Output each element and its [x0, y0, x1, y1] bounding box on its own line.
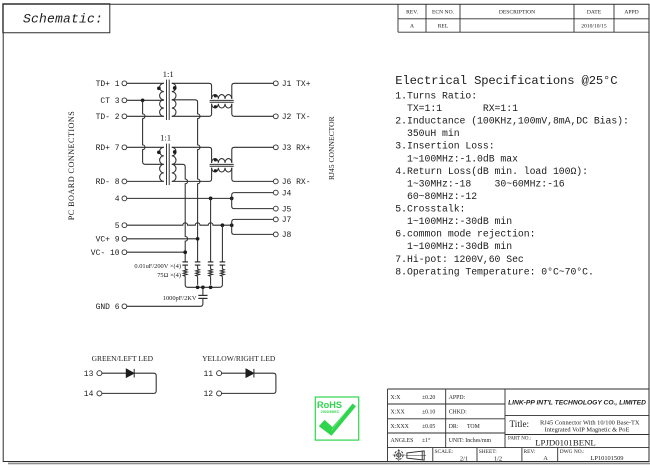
- electrical specifications text: [395, 74, 629, 277]
- svg-text:CT 3: CT 3: [100, 97, 119, 106]
- left caption PC BOARD CONNECTIONS: [67, 111, 76, 221]
- wire T1 secondary center tap down to C2 (net VC+, hops J2, RX+ and RX- lines): [172, 100, 200, 262]
- svg-text:LINK-PP INT'L TECHNOLOGY CO.,: LINK-PP INT'L TECHNOLOGY CO., LIMITED: [508, 400, 646, 407]
- svg-text:RJ45 CONNECTOR: RJ45 CONNECTOR: [327, 116, 336, 180]
- svg-text:1.Turns Ratio:: 1.Turns Ratio:: [395, 91, 477, 102]
- part number cell: [508, 437, 596, 448]
- svg-text:±1°: ±1°: [422, 437, 431, 444]
- svg-text:1~100MHz:-30dB min: 1~100MHz:-30dB min: [395, 241, 512, 252]
- svg-text:REV:: REV:: [524, 449, 536, 455]
- pin 13: [84, 370, 102, 379]
- svg-text:13: 13: [84, 370, 94, 379]
- svg-text:LP10101509: LP10101509: [590, 455, 623, 462]
- pin VC+ 9 (left terminal): [96, 236, 127, 245]
- svg-text:±0.20: ±0.20: [422, 395, 435, 401]
- pin CT 3 (left terminal): [100, 97, 126, 106]
- transformer T1 primary winding: [160, 83, 164, 116]
- wire VC- 10 to T2 center-tap vertical: [127, 251, 185, 253]
- pin J8 (RJ45 terminal): [273, 231, 291, 240]
- pin J3 RX+ (RJ45 terminal): [273, 144, 310, 153]
- resistor R2 75 ohm: [196, 269, 200, 285]
- svg-text:ANGLES: ANGLES: [391, 438, 414, 444]
- pin GND 6 (left terminal): [96, 303, 127, 312]
- title cell: [510, 419, 640, 434]
- svg-text:±0.05: ±0.05: [422, 424, 435, 430]
- wire CM1 to J2: [232, 104, 274, 117]
- resistor R4 75 ohm: [220, 269, 224, 285]
- pin 14: [84, 390, 102, 399]
- common-mode choke CM2 bottom winding: [212, 168, 232, 172]
- wire GND 6 to C5: [127, 298, 203, 306]
- node bus-C2 junction: [196, 285, 200, 289]
- svg-text:7.Hi-pot: 1200V,60 Sec: 7.Hi-pot: 1200V,60 Sec: [395, 254, 524, 265]
- bracket wire J7-J8: [232, 219, 274, 234]
- projection symbol: [393, 449, 426, 461]
- wire CM2 to J3: [232, 147, 274, 163]
- svg-text:J7: J7: [282, 216, 292, 225]
- schematic title box: [3, 4, 110, 33]
- transformer T2 secondary winding: [172, 147, 176, 181]
- wire TD- 2 lead to T1 primary bottom: [127, 115, 164, 117]
- wire pin 11 to yellow LED anode: [222, 372, 246, 374]
- transformer T1 secondary polarity dot: [173, 86, 177, 90]
- ground bus wire: [185, 285, 222, 288]
- svg-text:350uH min: 350uH min: [395, 128, 459, 139]
- pin 5 (left terminal): [115, 222, 127, 231]
- wire CM1 to J1: [232, 83, 274, 99]
- svg-text:12: 12: [203, 390, 213, 399]
- tolerance cells: [391, 395, 436, 444]
- svg-text:CHKD:: CHKD:: [449, 410, 467, 416]
- caption YELLOW/RIGHT LED: [202, 354, 276, 363]
- svg-text:RoHS: RoHS: [317, 400, 342, 410]
- wire CT center-tap down to T2 primary center tap (hops TD- and RD+): [143, 100, 164, 164]
- svg-text:75Ω ×(4): 75Ω ×(4): [157, 272, 181, 279]
- svg-text:2010/10/15: 2010/10/15: [581, 24, 607, 30]
- svg-text:YELLOW/RIGHT LED: YELLOW/RIGHT LED: [202, 354, 276, 363]
- node CT junction: [141, 98, 145, 102]
- wire green LED cathode to pin 14: [102, 373, 156, 393]
- capacitor C5 1000pF/2KV: [198, 287, 207, 298]
- wire RD+ 7 lead to T2 primary top: [127, 146, 164, 148]
- svg-text:TD+ 1: TD+ 1: [96, 80, 120, 89]
- svg-text:J4: J4: [282, 189, 292, 198]
- node VC- junction: [183, 250, 187, 254]
- pin RD- 8 (left terminal): [96, 178, 127, 187]
- svg-text:REV.: REV.: [406, 10, 418, 16]
- wire VC+ 9 to secondary center-tap vertical: [127, 238, 198, 240]
- wire down to C4: [221, 225, 223, 261]
- pin J4 (RJ45 terminal): [273, 189, 291, 198]
- svg-text:Title:: Title:: [510, 419, 530, 429]
- node bus-C3 junction: [209, 285, 213, 289]
- svg-text:SCALE:: SCALE:: [435, 449, 454, 455]
- wire T2 secondary bottom to CM2: [172, 168, 212, 182]
- capacitor C2 0.01uF/200V: [195, 262, 201, 269]
- node bus center junction: [201, 285, 205, 289]
- capacitor C1 0.01uF/200V: [182, 262, 188, 269]
- svg-text:RD- 8: RD- 8: [96, 178, 120, 187]
- pin J5 (RJ45 terminal): [273, 205, 291, 214]
- svg-text:DESCRIPTION: DESCRIPTION: [499, 10, 535, 16]
- svg-text:4.Return Loss(dB min. load 100: 4.Return Loss(dB min. load 100Ω):: [395, 166, 588, 177]
- svg-text:1:1: 1:1: [163, 69, 174, 79]
- right caption RJ45 CONNECTOR: [327, 116, 336, 180]
- svg-text:DWG NO.:: DWG NO.:: [560, 449, 585, 455]
- svg-text:J8: J8: [282, 231, 292, 240]
- wire pin 13 to green LED anode: [102, 372, 126, 374]
- common-mode choke CM2 core: [210, 164, 234, 166]
- svg-text:SHEET:: SHEET:: [479, 449, 498, 455]
- svg-text:14: 14: [84, 390, 94, 399]
- svg-text:GREEN/LEFT LED: GREEN/LEFT LED: [92, 354, 154, 363]
- svg-text:1:1: 1:1: [160, 133, 171, 143]
- title block: [388, 389, 650, 462]
- transformer T1 ratio label 1:1: [163, 69, 174, 79]
- wire TD+ 1 lead to T1 primary top: [127, 82, 164, 84]
- svg-text:11: 11: [203, 370, 213, 379]
- svg-text:5: 5: [115, 222, 120, 231]
- svg-text:J1 TX+: J1 TX+: [282, 80, 311, 89]
- wire yellow LED cathode to pin 12: [222, 373, 276, 393]
- bracket wire J4-J5: [232, 193, 274, 209]
- caption GREEN/LEFT LED: [92, 354, 154, 363]
- svg-text:A: A: [543, 455, 548, 462]
- wire RD- 8 lead to T2 primary bottom: [127, 180, 164, 182]
- svg-text:TX=1:1 RX=1:1: TX=1:1 RX=1:1: [395, 103, 518, 114]
- transformer T1 secondary winding: [172, 83, 176, 116]
- CM2 polarity dot top: [214, 158, 217, 161]
- wire pin 5 to J7/J8 bracket (hops three verticals): [127, 223, 232, 225]
- transformer T2 secondary polarity dot: [173, 150, 177, 154]
- wire CT 3 lead to T1 primary center tap: [127, 99, 164, 101]
- resistor R3 75 ohm: [209, 269, 213, 285]
- value label 1000pF/2KV: [163, 295, 197, 302]
- svg-text:Schematic:: Schematic:: [23, 12, 103, 27]
- pin J1 TX+ (RJ45 terminal): [273, 80, 310, 89]
- CM1 polarity dot top: [214, 94, 217, 97]
- svg-text:0.01uF/200V ×(4): 0.01uF/200V ×(4): [134, 263, 181, 270]
- revision table: [398, 4, 649, 32]
- pin VC- 10 (left terminal): [91, 249, 127, 258]
- svg-text:PC BOARD CONNECTIONS: PC BOARD CONNECTIONS: [67, 111, 76, 221]
- svg-text:PART NO.:: PART NO.:: [508, 437, 531, 442]
- svg-text:2/1: 2/1: [460, 455, 468, 462]
- wire pin 4 to J4/J5 bracket: [127, 197, 232, 199]
- svg-text:5.Crosstalk:: 5.Crosstalk:: [395, 204, 465, 215]
- svg-text:6.common mode rejection:: 6.common mode rejection:: [395, 229, 535, 240]
- capacitor C4 0.01uF/200V: [220, 262, 226, 269]
- svg-text:8.Operating Temperature: 0°C~7: 8.Operating Temperature: 0°C~70°C.: [395, 266, 594, 277]
- svg-text:DATE: DATE: [587, 10, 602, 16]
- wire down to C3: [210, 198, 212, 261]
- pin TD+ 1 (left terminal): [96, 80, 127, 89]
- transformer T1 core: [167, 80, 170, 120]
- svg-text:J2 TX-: J2 TX-: [282, 113, 311, 122]
- wire CM2 to J6: [232, 168, 274, 182]
- company name: [508, 400, 646, 407]
- common-mode choke CM1 core: [210, 100, 234, 102]
- svg-text:1~30MHz:-18 30~60MHz:-16: 1~30MHz:-18 30~60MHz:-16: [395, 178, 564, 189]
- transformer T2 primary polarity dot: [157, 150, 161, 154]
- svg-text:J3 RX+: J3 RX+: [282, 144, 311, 153]
- svg-text:ECN NO.: ECN NO.: [432, 10, 455, 16]
- pin 4 (left terminal): [115, 195, 127, 204]
- svg-text:1~100MHz:-1.0dB max: 1~100MHz:-1.0dB max: [395, 153, 518, 164]
- node VC+ junction: [196, 237, 200, 241]
- pin J6 RX- (RJ45 terminal): [273, 178, 310, 187]
- svg-text:DR:: DR:: [449, 424, 459, 430]
- node pin5 to C4 junction: [221, 223, 225, 227]
- svg-text:J6 RX-: J6 RX-: [282, 178, 311, 187]
- scale/sheet/rev/dwg cells: [435, 449, 624, 462]
- node pin5 bracket junction: [230, 223, 234, 227]
- transformer T1 primary polarity dot: [157, 86, 161, 90]
- node pin4 to C3 junction: [209, 197, 213, 201]
- svg-text:GND 6: GND 6: [96, 303, 120, 312]
- CM2 polarity dot bottom: [214, 169, 217, 172]
- svg-text:APPD: APPD: [624, 10, 638, 16]
- svg-text:REL: REL: [438, 24, 449, 30]
- svg-text:RD+ 7: RD+ 7: [96, 144, 120, 153]
- svg-text:X:XX: X:XX: [391, 410, 406, 416]
- LED D1 green: [126, 369, 134, 378]
- value label 0.01uF/200V x(4): [134, 263, 181, 270]
- svg-text:X:X: X:X: [391, 395, 402, 401]
- svg-text:TD- 2: TD- 2: [96, 113, 120, 122]
- pin RD+ 7 (left terminal): [96, 144, 127, 153]
- svg-text:2002/95/EC: 2002/95/EC: [321, 410, 340, 414]
- LED D2 yellow: [246, 369, 254, 378]
- svg-text:Integrated VoIP Magnetic & PoE: Integrated VoIP Magnetic & PoE: [545, 427, 630, 434]
- svg-text:1~100MHz:-30dB min: 1~100MHz:-30dB min: [395, 216, 512, 227]
- transformer T2 ratio label 1:1: [160, 133, 171, 143]
- svg-text:A: A: [410, 24, 414, 30]
- svg-text:UNIT: Inches/mm: UNIT: Inches/mm: [449, 438, 492, 444]
- svg-text:J5: J5: [282, 205, 292, 214]
- pin TD- 2 (left terminal): [96, 113, 127, 122]
- value label 75 ohm x(4): [157, 272, 181, 279]
- wire T1 secondary bottom to CM1: [172, 104, 212, 117]
- pin J7 (RJ45 terminal): [273, 216, 291, 225]
- svg-text:4: 4: [115, 195, 120, 204]
- svg-text:TOM: TOM: [467, 424, 480, 430]
- pin J2 TX- (RJ45 terminal): [273, 113, 310, 122]
- CM1 polarity dot bottom: [214, 105, 217, 108]
- svg-text:1000pF/2KV: 1000pF/2KV: [163, 295, 197, 302]
- svg-text:APPD:: APPD:: [449, 395, 466, 401]
- RoHS logo: [315, 397, 358, 440]
- common-mode choke CM1 bottom winding: [212, 104, 232, 108]
- svg-text:Electrical Specifications @25°: Electrical Specifications @25°C: [395, 74, 617, 88]
- svg-text:±0.10: ±0.10: [422, 410, 435, 416]
- svg-text:1/2: 1/2: [494, 455, 502, 462]
- svg-text:60~80MHz:-12: 60~80MHz:-12: [395, 191, 477, 202]
- common-mode choke CM2 top winding: [212, 159, 232, 163]
- transformer T2 primary winding: [160, 147, 164, 181]
- node pin4 bracket junction: [230, 197, 234, 201]
- common-mode choke CM1 top winding: [212, 95, 232, 99]
- wire T2 secondary top to CM2: [172, 147, 212, 163]
- svg-text:VC+ 9: VC+ 9: [96, 236, 120, 245]
- pin 12: [203, 390, 221, 399]
- wire T1 secondary top to CM1: [172, 83, 212, 99]
- transformer T2 core: [167, 144, 170, 186]
- resistor R1 75 ohm: [183, 269, 187, 285]
- approval cells: [449, 395, 492, 444]
- capacitor C3 0.01uF/200V: [208, 262, 214, 269]
- svg-text:VC- 10: VC- 10: [91, 249, 120, 258]
- svg-text:LPJD0101BENL: LPJD0101BENL: [535, 437, 596, 447]
- pin 11: [203, 370, 221, 379]
- wire T2 secondary center tap down to C1 (net VC-, hops J6 line and VC+ line): [172, 164, 188, 261]
- svg-text:2.Inductance (100KHz,100mV,8mA: 2.Inductance (100KHz,100mV,8mA,DC Bias):: [395, 116, 629, 127]
- svg-text:3.Insertion Loss:: 3.Insertion Loss:: [395, 141, 494, 152]
- svg-text:X:XXX: X:XXX: [391, 424, 410, 430]
